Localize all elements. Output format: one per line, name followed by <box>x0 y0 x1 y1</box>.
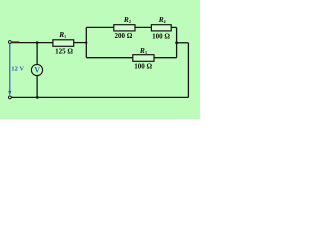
svg-text:100 Ω: 100 Ω <box>134 63 152 71</box>
svg-text:12 V: 12 V <box>11 66 24 73</box>
svg-text:V: V <box>34 66 40 75</box>
svg-text:200 Ω: 200 Ω <box>114 32 132 40</box>
svg-text:125 Ω: 125 Ω <box>55 47 73 55</box>
svg-text:100 Ω: 100 Ω <box>152 32 170 40</box>
